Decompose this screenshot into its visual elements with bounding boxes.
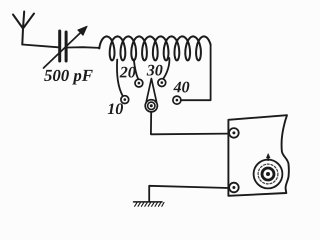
tap wire 30 [163, 58, 169, 79]
tap terminal 20 [135, 79, 143, 87]
wire ground to panel bottom terminal [149, 186, 229, 202]
tap terminal 40 [173, 96, 181, 104]
wire coil end down to tap 40 [181, 45, 211, 100]
wire antenna to capacitor [22, 45, 58, 48]
capacitor C1 500pF plates [60, 31, 66, 61]
tap terminal 10 [121, 96, 129, 104]
capacitor arrow (variable) [44, 26, 88, 68]
antenna [13, 12, 34, 45]
label 20 [120, 67, 136, 78]
label 30 [147, 65, 163, 76]
tap wire 10 [117, 60, 123, 96]
receiver panel outline [228, 115, 288, 196]
ground [134, 202, 165, 206]
wire capacitor to coil [68, 46, 100, 49]
tap terminal 30 [158, 79, 166, 87]
wiper plug P1 [145, 79, 157, 112]
wire wiper to panel top terminal [151, 112, 229, 134]
tap wire 20 [134, 60, 138, 80]
panel terminal bottom [229, 183, 239, 193]
label 10 [108, 103, 123, 114]
label 500 pF [44, 70, 93, 85]
panel terminal top [229, 128, 239, 138]
label 40 [173, 82, 189, 93]
knob / dial [254, 154, 283, 189]
inductor L1 coil [99, 36, 210, 60]
